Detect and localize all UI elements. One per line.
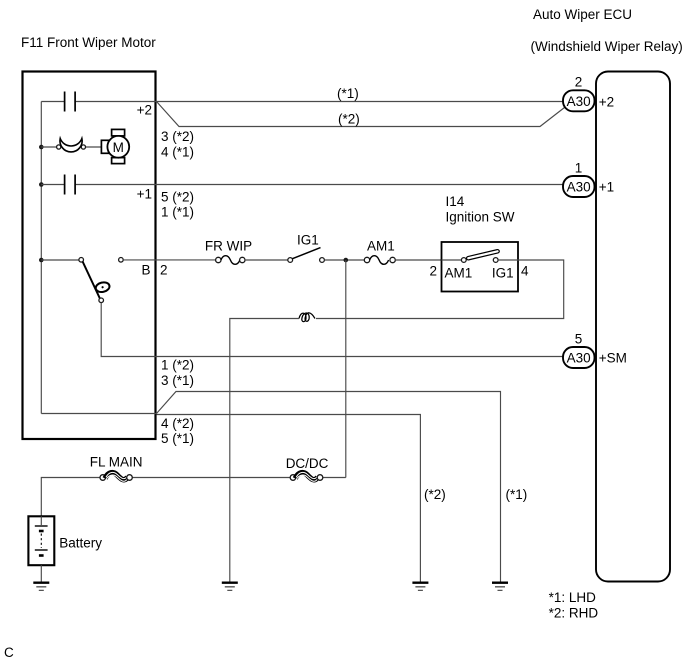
wire junction down to DC/DC line — [345, 260, 347, 478]
park switch cam ellipse — [95, 281, 111, 293]
inductor coil (noise filter) — [299, 313, 315, 322]
svg-text:5 (*1): 5 (*1) — [161, 431, 194, 446]
svg-text:A30: A30 — [567, 180, 591, 195]
ignition switch blade lever — [466, 249, 499, 260]
wire FR WIP to IG1 switch — [245, 259, 288, 261]
svg-text:(*1): (*1) — [337, 86, 359, 101]
wire battery to FL MAIN to DC/DC — [41, 478, 346, 517]
ignition switch contact IG1 — [493, 258, 498, 263]
svg-text:3 (*2): 3 (*2) — [161, 129, 194, 144]
svg-text:4 (*2): 4 (*2) — [161, 416, 194, 431]
svg-text:4 (*1): 4 (*1) — [161, 145, 194, 160]
switch IG1 — [288, 258, 293, 263]
battery component — [28, 516, 54, 565]
svg-text:4: 4 — [521, 264, 529, 279]
svg-text:(*2): (*2) — [424, 487, 446, 502]
park switch contact top — [79, 258, 84, 263]
wire +2 capacitor feed (pin 4 (*1)) to A30 +2 — [41, 101, 563, 103]
svg-text:I14: I14 — [446, 194, 465, 209]
wire park switch bottom to +SM line — [101, 303, 563, 357]
wire pin 4/5 straight to (*2) ground run — [157, 415, 421, 582]
ground G2 ((*2) wire) — [412, 583, 428, 591]
wire coil to ground run — [230, 319, 299, 582]
svg-text:+2: +2 — [599, 95, 614, 110]
svg-text:*1: LHD: *1: LHD — [549, 590, 597, 605]
fuse AM1 — [364, 257, 369, 262]
ground G3 ((*1) wire) — [492, 583, 508, 591]
svg-text:AM1: AM1 — [367, 239, 395, 254]
capacitor C1 (top, +2 line) — [65, 92, 76, 112]
wire B contact to FR WIP — [123, 259, 215, 261]
node junction dot park switch — [39, 258, 44, 263]
svg-text:F11 Front Wiper Motor: F11 Front Wiper Motor — [21, 35, 156, 50]
ECU box Auto Wiper ECU (Windshield Wiper Relay) — [596, 72, 670, 582]
svg-text:Battery: Battery — [59, 536, 102, 551]
wire motor branch — [41, 146, 101, 148]
wire battery to ground — [40, 565, 42, 581]
svg-text:+SM: +SM — [599, 351, 627, 366]
svg-text:AM1: AM1 — [445, 266, 473, 281]
svg-text:A30: A30 — [567, 94, 591, 109]
wire to park switch — [41, 259, 79, 261]
svg-text:FR WIP: FR WIP — [205, 239, 252, 254]
wire into AM1 contact — [442, 259, 462, 261]
component box I14 ignition switch — [442, 242, 519, 292]
motor M terminal top — [112, 129, 125, 136]
circuit breaker (crescent) contacts — [57, 145, 61, 149]
svg-text:+1: +1 — [599, 180, 614, 195]
svg-text:M: M — [113, 140, 124, 155]
ground G4 (battery) — [33, 583, 49, 591]
connector A30 pin 2 — [563, 90, 595, 111]
svg-text:Ignition SW: Ignition SW — [446, 210, 515, 225]
component box F11 front wiper motor — [23, 72, 156, 440]
wire left vertical bus inside motor box — [40, 102, 42, 414]
motor M brush left — [101, 140, 108, 153]
park switch contact B side — [119, 258, 124, 263]
svg-text:2: 2 — [430, 264, 438, 279]
svg-text:FL MAIN: FL MAIN — [90, 455, 143, 470]
svg-text:IG1: IG1 — [297, 233, 319, 248]
node junction dot motor feed — [39, 145, 44, 150]
wire motor box bottom to pin 4/5 — [41, 413, 156, 415]
svg-text:2: 2 — [575, 75, 583, 90]
wire +1 capacitor line to A30 +1 — [41, 184, 563, 186]
svg-text:5: 5 — [575, 332, 583, 347]
ground G1 (coil ground) — [222, 583, 238, 591]
connector A30 pin 5 — [563, 347, 595, 368]
motor M terminal bottom — [112, 158, 125, 164]
wire AM1 to ignition switch box — [395, 259, 441, 261]
svg-text:5 (*2): 5 (*2) — [161, 190, 194, 205]
svg-text:+2: +2 — [137, 103, 152, 118]
svg-text:B: B — [142, 263, 151, 278]
svg-text:1: 1 — [575, 161, 583, 176]
fuse FL MAIN (fusible link) — [100, 475, 106, 481]
svg-text:IG1: IG1 — [492, 266, 514, 281]
motor M body — [107, 136, 129, 158]
svg-text:3 (*1): 3 (*1) — [161, 373, 194, 388]
svg-text:*2: RHD: *2: RHD — [549, 605, 599, 620]
capacitor C2 (+1 line) — [65, 175, 76, 195]
node junction dot +1 tap — [39, 182, 44, 187]
park switch contact bottom — [99, 298, 104, 303]
svg-text:A30: A30 — [567, 351, 591, 366]
svg-text:(Windshield Wiper Relay): (Windshield Wiper Relay) — [531, 39, 683, 54]
park switch lever — [83, 262, 100, 299]
svg-text:DC/DC: DC/DC — [286, 456, 329, 471]
fuse FR WIP — [216, 257, 221, 262]
svg-text:1 (*1): 1 (*1) — [161, 205, 194, 220]
wire IG1 contact to coil line — [316, 260, 564, 319]
node junction dot AM1 branch — [344, 258, 349, 263]
fuse DC/DC (fusible link) — [290, 475, 296, 481]
svg-text:+1: +1 — [137, 187, 152, 202]
svg-text:(*1): (*1) — [506, 487, 528, 502]
svg-text:Auto Wiper ECU: Auto Wiper ECU — [533, 7, 632, 22]
wire (*2) branch from pin 3 to A30 +2 (diagonal merge) — [157, 102, 565, 127]
ignition switch contact AM1 — [461, 258, 466, 263]
wire pin 4/5 diagonal to (*1) ground run — [157, 392, 501, 582]
circuit breaker crescent element — [60, 139, 82, 152]
svg-text:(*2): (*2) — [338, 112, 360, 127]
svg-text:C: C — [4, 645, 14, 659]
wire IG1 to AM1 fuse — [324, 259, 364, 261]
connector A30 pin 1 — [563, 176, 595, 197]
svg-text:1 (*2): 1 (*2) — [161, 358, 194, 373]
svg-text:2: 2 — [160, 263, 168, 278]
